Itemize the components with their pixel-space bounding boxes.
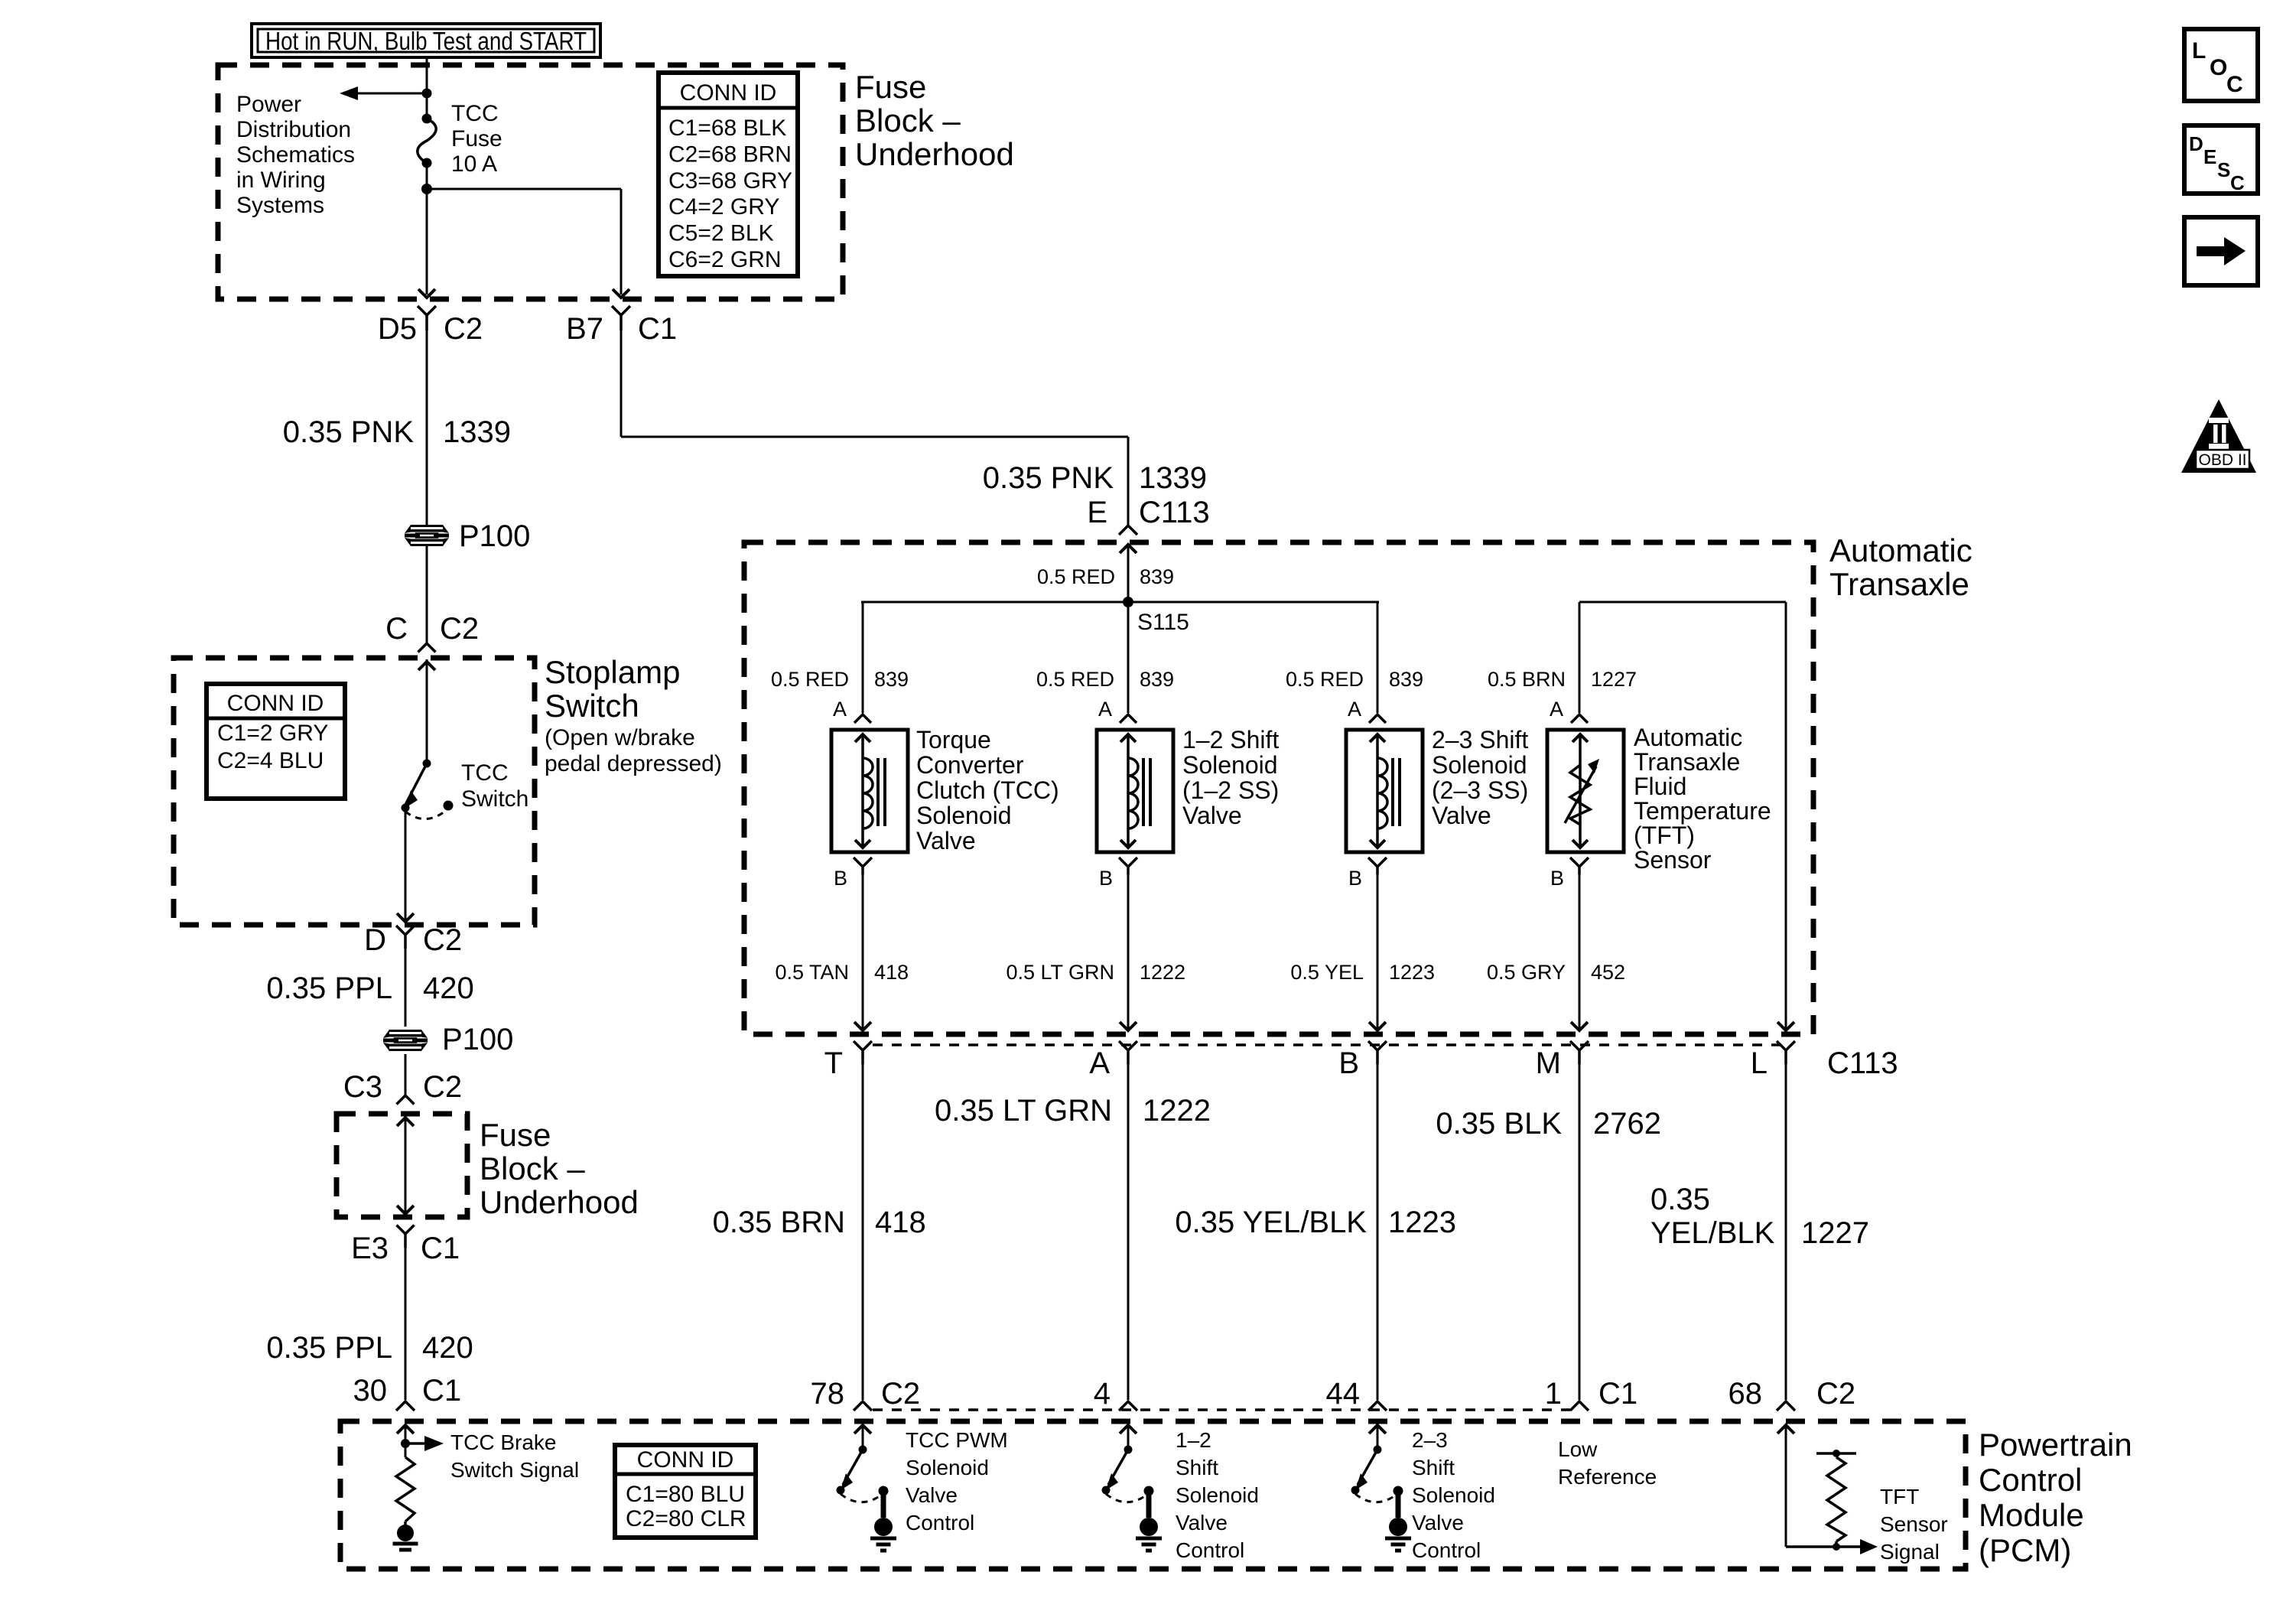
svg-text:Module: Module (1979, 1497, 2084, 1533)
svg-text:420: 420 (422, 1331, 473, 1365)
svg-text:Valve: Valve (1432, 802, 1491, 829)
svg-text:1222: 1222 (1143, 1094, 1211, 1128)
svg-text:C2=68 BRN: C2=68 BRN (668, 142, 792, 167)
svg-text:78: 78 (811, 1377, 845, 1411)
svg-text:Control: Control (1979, 1462, 2082, 1498)
svg-text:Fuse: Fuse (855, 69, 926, 105)
svg-text:C1=80 BLU: C1=80 BLU (626, 1482, 745, 1507)
svg-text:P100: P100 (442, 1023, 513, 1056)
svg-text:B: B (1099, 867, 1113, 890)
svg-text:(TFT): (TFT) (1634, 822, 1695, 849)
svg-text:Solenoid: Solenoid (1182, 751, 1278, 779)
svg-text:Signal: Signal (1880, 1540, 1940, 1564)
svg-text:Underhood: Underhood (480, 1184, 639, 1220)
svg-text:1227: 1227 (1591, 668, 1637, 691)
svg-text:1223: 1223 (1389, 961, 1435, 984)
svg-text:452: 452 (1591, 961, 1625, 984)
svg-text:D5: D5 (378, 312, 417, 346)
svg-text:TCC Brake: TCC Brake (450, 1430, 556, 1454)
svg-text:B: B (1338, 1046, 1359, 1080)
svg-text:839: 839 (1140, 668, 1174, 691)
svg-text:in Wiring: in Wiring (236, 168, 326, 193)
svg-text:68: 68 (1729, 1377, 1763, 1411)
svg-text:0.5 GRY: 0.5 GRY (1487, 961, 1566, 984)
svg-text:C1: C1 (1598, 1377, 1637, 1411)
svg-text:C: C (385, 612, 408, 646)
svg-text:O: O (2210, 55, 2227, 80)
svg-text:C5=2 BLK: C5=2 BLK (668, 221, 774, 246)
svg-text:0.5 BRN: 0.5 BRN (1488, 668, 1566, 691)
svg-text:0.5 LT GRN: 0.5 LT GRN (1006, 961, 1114, 984)
svg-text:Power: Power (236, 92, 301, 117)
svg-text:Control: Control (906, 1511, 974, 1535)
svg-text:1: 1 (1545, 1377, 1562, 1411)
svg-text:Solenoid: Solenoid (1176, 1483, 1259, 1507)
svg-text:0.35 PPL: 0.35 PPL (266, 1331, 392, 1365)
svg-text:C1: C1 (422, 1374, 461, 1408)
svg-text:C1=2 GRY: C1=2 GRY (217, 721, 328, 746)
svg-text:Shift: Shift (1176, 1456, 1218, 1479)
svg-text:Underhood: Underhood (855, 136, 1014, 172)
svg-text:C2: C2 (881, 1377, 920, 1411)
svg-text:1223: 1223 (1388, 1206, 1456, 1239)
svg-text:2–3 Shift: 2–3 Shift (1432, 726, 1528, 753)
svg-text:0.5 RED: 0.5 RED (771, 668, 849, 691)
svg-text:C6=2 GRN: C6=2 GRN (668, 247, 782, 272)
svg-text:A: A (1550, 698, 1563, 721)
svg-text:E: E (2203, 145, 2216, 168)
svg-text:Valve: Valve (1182, 802, 1242, 829)
svg-text:Distribution: Distribution (236, 117, 351, 142)
svg-text:M: M (1536, 1046, 1561, 1080)
svg-text:Reference: Reference (1558, 1465, 1657, 1489)
svg-text:839: 839 (874, 668, 909, 691)
svg-text:C2: C2 (423, 923, 462, 957)
svg-text:E3: E3 (351, 1232, 389, 1265)
svg-text:420: 420 (423, 971, 474, 1005)
svg-text:Valve: Valve (1176, 1511, 1228, 1535)
svg-text:Fuse: Fuse (451, 126, 502, 151)
svg-text:CONN ID: CONN ID (227, 691, 324, 716)
svg-text:A: A (1098, 698, 1112, 721)
svg-text:Sensor: Sensor (1880, 1512, 1948, 1536)
svg-text:L: L (2192, 38, 2206, 63)
svg-text:A: A (1348, 698, 1361, 721)
svg-text:1–2 Shift: 1–2 Shift (1182, 726, 1279, 753)
svg-text:2–3: 2–3 (1412, 1428, 1448, 1452)
svg-text:YEL/BLK: YEL/BLK (1650, 1216, 1775, 1250)
svg-text:TCC PWM: TCC PWM (906, 1428, 1008, 1452)
svg-text:0.5 RED: 0.5 RED (1286, 668, 1364, 691)
svg-text:0.35 BLK: 0.35 BLK (1436, 1107, 1562, 1141)
svg-text:C113: C113 (1139, 496, 1210, 529)
svg-text:Low: Low (1558, 1437, 1598, 1461)
svg-text:Stoplamp: Stoplamp (545, 654, 680, 690)
svg-text:10 A: 10 A (451, 151, 497, 177)
svg-text:Schematics: Schematics (236, 142, 355, 168)
svg-text:C2=4 BLU: C2=4 BLU (217, 748, 324, 773)
svg-text:C2: C2 (423, 1070, 462, 1104)
svg-text:1339: 1339 (443, 415, 511, 449)
svg-text:Clutch (TCC): Clutch (TCC) (916, 776, 1059, 804)
svg-text:2762: 2762 (1593, 1107, 1661, 1141)
svg-text:0.35 LT GRN: 0.35 LT GRN (935, 1094, 1112, 1128)
svg-text:(1–2 SS): (1–2 SS) (1182, 776, 1279, 804)
svg-text:Systems: Systems (236, 193, 324, 218)
svg-text:S: S (2217, 158, 2230, 181)
svg-text:C2: C2 (1816, 1377, 1855, 1411)
svg-text:C: C (2226, 72, 2243, 97)
svg-text:418: 418 (875, 1206, 926, 1239)
svg-text:P100: P100 (459, 519, 530, 553)
svg-text:839: 839 (1140, 565, 1174, 588)
svg-text:C113: C113 (1827, 1046, 1898, 1080)
svg-text:0.35 PNK: 0.35 PNK (283, 415, 415, 449)
svg-text:418: 418 (874, 961, 909, 984)
svg-text:Block –: Block – (480, 1150, 585, 1186)
svg-text:Torque: Torque (916, 726, 991, 753)
svg-text:CONN ID: CONN ID (637, 1447, 734, 1473)
svg-text:(2–3 SS): (2–3 SS) (1432, 776, 1528, 804)
svg-text:44: 44 (1326, 1377, 1361, 1411)
svg-text:0.35 PNK: 0.35 PNK (983, 461, 1114, 495)
svg-text:0.5 RED: 0.5 RED (1037, 565, 1115, 588)
svg-text:Transaxle: Transaxle (1829, 566, 1969, 602)
svg-text:B: B (834, 867, 847, 890)
svg-text:(PCM): (PCM) (1979, 1532, 2071, 1568)
svg-text:Shift: Shift (1412, 1456, 1455, 1479)
svg-text:S115: S115 (1137, 610, 1189, 635)
svg-text:C4=2 GRY: C4=2 GRY (668, 194, 779, 220)
svg-text:Solenoid: Solenoid (1412, 1483, 1495, 1507)
svg-text:Solenoid: Solenoid (1432, 751, 1527, 779)
svg-text:(Open w/brake: (Open w/brake (545, 725, 695, 750)
svg-text:Solenoid: Solenoid (906, 1456, 989, 1479)
svg-text:1222: 1222 (1140, 961, 1185, 984)
svg-text:TCC: TCC (451, 101, 499, 126)
svg-text:0.35 YEL/BLK: 0.35 YEL/BLK (1175, 1206, 1367, 1239)
svg-text:Hot in RUN, Bulb Test and STAR: Hot in RUN, Bulb Test and START (265, 27, 587, 55)
svg-text:0.5 TAN: 0.5 TAN (775, 961, 849, 984)
svg-text:C: C (2230, 171, 2245, 194)
svg-text:D: D (2189, 132, 2203, 155)
svg-text:Valve: Valve (906, 1483, 958, 1507)
svg-text:D: D (364, 923, 386, 957)
svg-text:4: 4 (1094, 1377, 1111, 1411)
svg-text:B: B (1550, 867, 1564, 890)
svg-text:C3: C3 (343, 1070, 382, 1104)
svg-text:C2: C2 (440, 612, 479, 646)
svg-text:pedal depressed): pedal depressed) (545, 751, 722, 776)
svg-text:TCC: TCC (461, 760, 509, 786)
svg-text:C3=68 GRY: C3=68 GRY (668, 168, 792, 194)
svg-text:Fuse: Fuse (480, 1117, 551, 1153)
svg-text:C1: C1 (638, 312, 677, 346)
svg-text:Switch: Switch (545, 688, 639, 724)
svg-text:Transaxle: Transaxle (1634, 748, 1740, 776)
svg-text:Switch Signal: Switch Signal (450, 1458, 579, 1482)
svg-text:Valve: Valve (1412, 1511, 1464, 1535)
svg-text:TFT: TFT (1880, 1485, 1919, 1508)
svg-text:Solenoid: Solenoid (916, 802, 1012, 829)
svg-text:Automatic: Automatic (1634, 724, 1742, 751)
svg-text:Control: Control (1176, 1538, 1244, 1562)
svg-text:L: L (1751, 1046, 1768, 1080)
svg-text:C1=68 BLK: C1=68 BLK (668, 116, 786, 141)
svg-text:839: 839 (1389, 668, 1423, 691)
svg-text:B7: B7 (566, 312, 603, 346)
svg-text:Control: Control (1412, 1538, 1481, 1562)
svg-text:0.35 BRN: 0.35 BRN (713, 1206, 845, 1239)
svg-text:1–2: 1–2 (1176, 1428, 1211, 1452)
svg-text:Powertrain: Powertrain (1979, 1427, 2132, 1463)
svg-text:0.35: 0.35 (1650, 1183, 1710, 1216)
svg-text:Converter: Converter (916, 751, 1024, 779)
svg-text:T: T (824, 1046, 843, 1080)
svg-text:Automatic: Automatic (1829, 532, 1972, 568)
svg-text:0.5 RED: 0.5 RED (1036, 668, 1114, 691)
svg-text:C2: C2 (444, 312, 483, 346)
svg-text:A: A (833, 698, 847, 721)
svg-text:30: 30 (353, 1374, 388, 1408)
svg-text:Switch: Switch (461, 786, 528, 812)
svg-text:0.5 YEL: 0.5 YEL (1290, 961, 1364, 984)
svg-text:OBD II: OBD II (2198, 451, 2246, 469)
svg-text:Fluid: Fluid (1634, 773, 1686, 800)
svg-text:1227: 1227 (1801, 1216, 1869, 1250)
svg-text:Valve: Valve (916, 827, 976, 854)
svg-text:C2=80 CLR: C2=80 CLR (626, 1506, 746, 1531)
svg-text:C1: C1 (421, 1232, 460, 1265)
svg-text:E: E (1087, 496, 1107, 529)
svg-text:Block –: Block – (855, 103, 961, 138)
svg-text:Sensor: Sensor (1634, 846, 1712, 874)
svg-text:B: B (1348, 867, 1362, 890)
svg-text:Temperature: Temperature (1634, 797, 1771, 825)
svg-text:0.35 PPL: 0.35 PPL (266, 971, 392, 1005)
svg-text:1339: 1339 (1139, 461, 1207, 495)
svg-text:A: A (1089, 1046, 1110, 1080)
svg-text:CONN ID: CONN ID (680, 80, 777, 106)
